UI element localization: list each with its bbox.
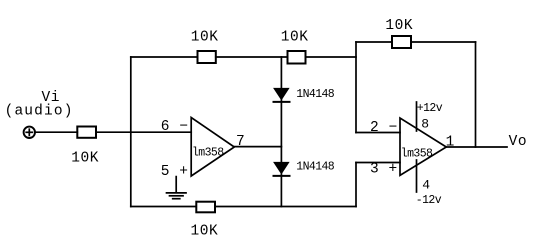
svg-text:-12v: -12v	[416, 194, 442, 207]
svg-text:6 −: 6 −	[161, 119, 189, 135]
svg-text:10K: 10K	[191, 224, 219, 240]
wire U2 pin 4 power stub (-12v)	[416, 160, 418, 192]
diode D1 1N4148	[274, 88, 290, 102]
svg-text:1N4148: 1N4148	[296, 160, 335, 173]
wire U2 pin 2 horizontal	[356, 132, 400, 134]
svg-text:5 +: 5 +	[161, 164, 189, 180]
wire U2 pin 8 power stub (+12v)	[416, 102, 418, 131]
wire top right: node B to R3	[356, 41, 392, 43]
resistor Rin 10K	[77, 127, 96, 138]
resistor R1 10K	[198, 51, 216, 63]
wire node B vertical to U2 pin 2	[355, 42, 357, 133]
wire left feedback vertical (node A)	[130, 57, 132, 207]
svg-text:2 −: 2 −	[370, 120, 398, 136]
wire bottom rail	[131, 206, 356, 208]
svg-text:3 +: 3 +	[370, 162, 398, 178]
ground stub	[175, 177, 177, 192]
wire U1 output pin 7 to diode junction	[234, 146, 281, 148]
wire R2 to node B vertical	[306, 56, 357, 58]
wire diode branch vertical	[280, 57, 282, 207]
resistor R3 10K	[392, 36, 411, 48]
wire Rin to op-amp U1 pin 6	[96, 131, 191, 133]
wire input terminal to resistor Rin	[36, 131, 78, 133]
op-amp U2 lm358 triangle	[400, 118, 446, 175]
resistor Rb 10K (bottom)	[196, 202, 215, 213]
svg-text:(audio): (audio)	[5, 104, 74, 120]
svg-text:1N4148: 1N4148	[296, 88, 335, 101]
wire R1 to R2	[216, 56, 288, 58]
wire U2 pin 3 horizontal	[356, 162, 400, 164]
wire right feedback vertical to U2 output	[475, 42, 477, 147]
svg-text:4: 4	[422, 178, 430, 193]
wire U2 pin 3 down to bottom rail	[355, 163, 357, 207]
svg-text:1: 1	[446, 135, 455, 151]
input terminal J1 (circle with plus)	[24, 127, 35, 138]
op-amp U1 lm358 triangle	[191, 118, 234, 177]
svg-text:10K: 10K	[71, 151, 99, 167]
ground symbol	[167, 193, 187, 199]
svg-text:lm358: lm358	[192, 147, 224, 160]
svg-text:10K: 10K	[385, 18, 413, 34]
svg-text:8: 8	[421, 116, 429, 131]
svg-text:10K: 10K	[281, 30, 309, 46]
wire U2 output pin 1 to Vo	[446, 146, 507, 148]
svg-text:lm358: lm358	[401, 147, 433, 160]
svg-text:10K: 10K	[191, 30, 219, 46]
wire top left: node A to R1	[131, 56, 198, 58]
wire R3 to right vertical	[411, 41, 476, 43]
svg-text:Vo: Vo	[509, 134, 528, 150]
diode D2 1N4148	[274, 162, 290, 176]
svg-text:+12v: +12v	[417, 102, 443, 115]
svg-text:7: 7	[236, 134, 245, 150]
resistor R2 10K	[288, 51, 306, 64]
